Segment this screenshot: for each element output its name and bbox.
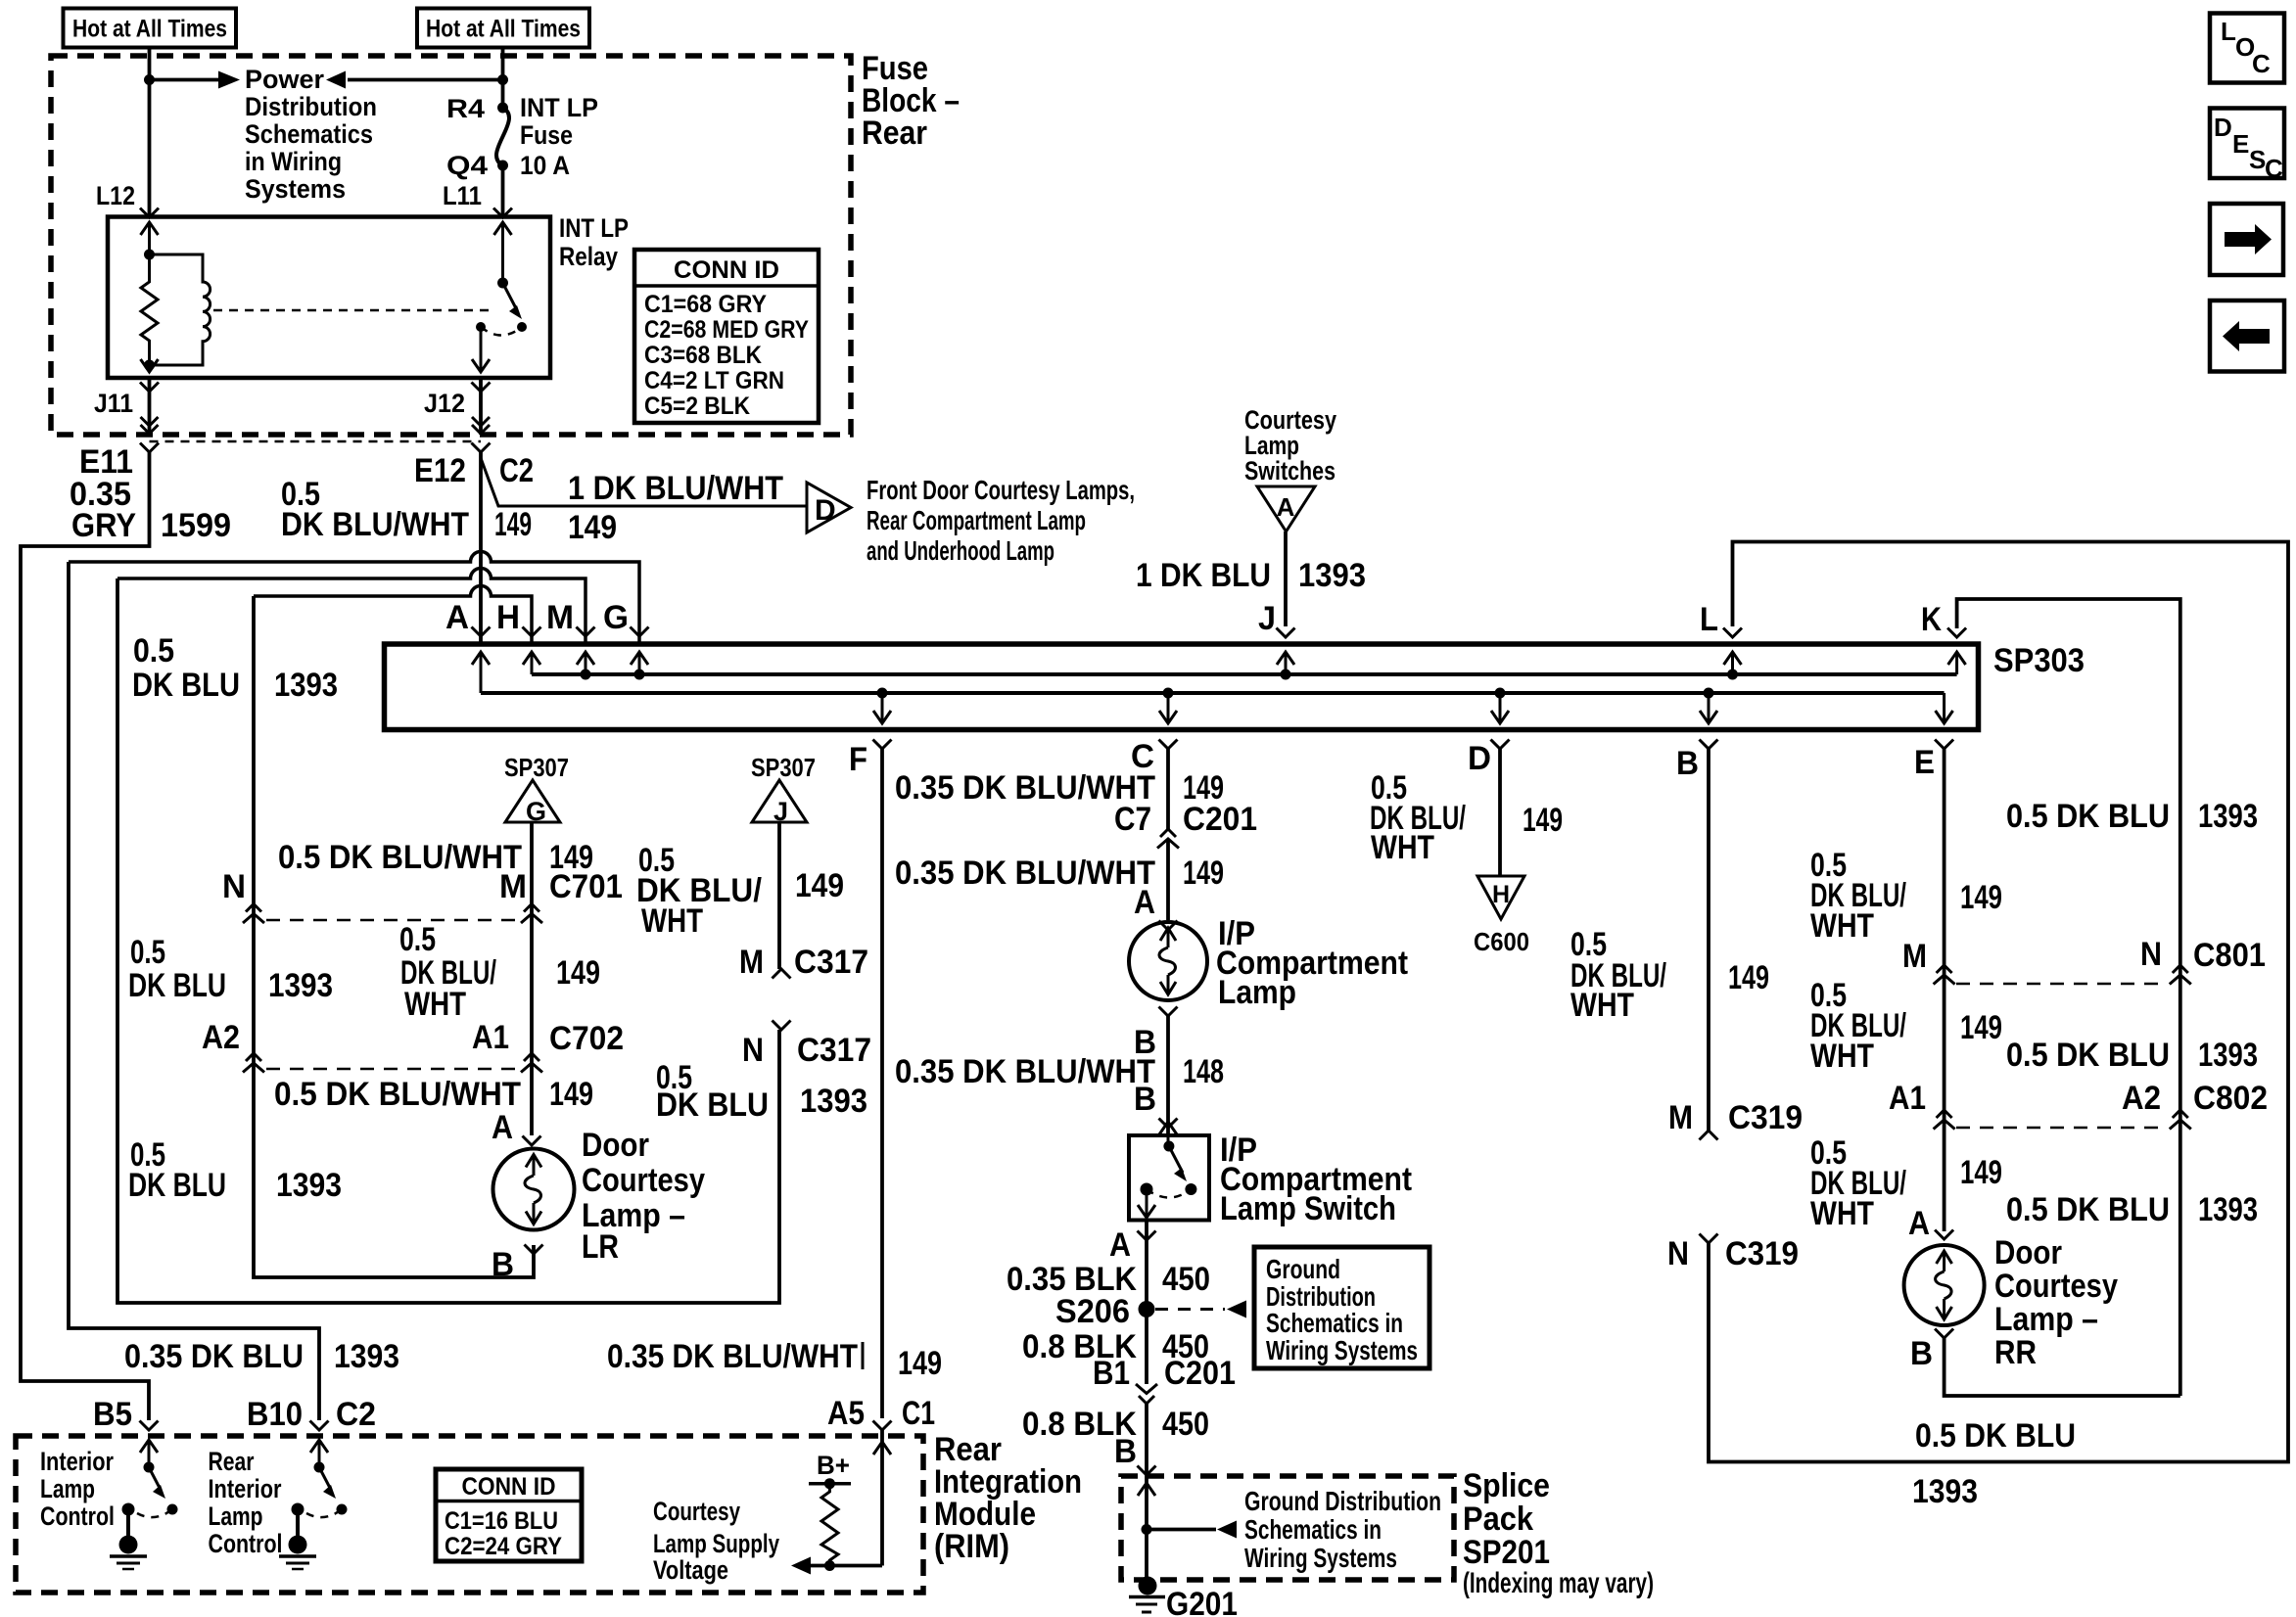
wire branch to splice H terminal bbox=[254, 586, 532, 645]
C702 mate dashed line bbox=[266, 1068, 519, 1071]
interior lamp control entry arrow bbox=[140, 1440, 158, 1453]
arrow to power distribution note bbox=[150, 71, 241, 89]
C701 mate dashed line bbox=[266, 919, 519, 922]
wire label 0.35 DK BLU/WHT 148 bbox=[895, 1053, 1224, 1090]
svg-text:A5: A5 bbox=[827, 1395, 865, 1432]
nav box DESC bbox=[2210, 109, 2284, 184]
splice terminal J arrow bbox=[1277, 652, 1294, 680]
svg-text:Rear Compartment Lamp: Rear Compartment Lamp bbox=[867, 505, 1086, 535]
wire label 0.8 BLK 450 bbox=[1022, 1328, 1209, 1365]
svg-text:149: 149 bbox=[556, 954, 600, 992]
dashed connector mate line E11-E12 bbox=[150, 440, 482, 443]
relay switch input arrow (from L11) bbox=[494, 222, 512, 235]
svg-text:1393: 1393 bbox=[1298, 557, 1366, 594]
connector splice pack B bbox=[1138, 1466, 1156, 1476]
svg-text:Rear: Rear bbox=[209, 1447, 255, 1476]
svg-text:L11: L11 bbox=[443, 181, 482, 210]
nav box LOC bbox=[2210, 14, 2284, 83]
svg-text:H: H bbox=[1492, 881, 1510, 908]
svg-text:Pack: Pack bbox=[1463, 1501, 1533, 1538]
svg-text:N: N bbox=[2140, 936, 2162, 973]
svg-text:E: E bbox=[2232, 129, 2249, 159]
connector J11 bbox=[140, 383, 159, 435]
svg-text:C1=68 GRY: C1=68 GRY bbox=[644, 291, 767, 318]
svg-text:149: 149 bbox=[1183, 855, 1224, 892]
wire A triangle to splice J bbox=[1284, 531, 1288, 626]
svg-text:Schematics in: Schematics in bbox=[1266, 1308, 1403, 1338]
wire label 0.5 DK BLU/ WHT 149 (E lower) bbox=[1810, 1134, 2002, 1232]
svg-text:S206: S206 bbox=[1055, 1293, 1130, 1330]
svg-text:0.5: 0.5 bbox=[133, 632, 174, 670]
connector C319 cavity N (start) bbox=[1667, 1234, 1718, 1273]
svg-text:(RIM): (RIM) bbox=[934, 1528, 1009, 1565]
relay box INT LP Relay bbox=[108, 217, 550, 379]
wire SP307 J to C317 M bbox=[777, 822, 781, 969]
svg-text:149: 149 bbox=[795, 867, 844, 904]
wire label 0.35 DK BLU/WHT 149 (A5) bbox=[607, 1338, 942, 1382]
splice exit B connector bbox=[1700, 740, 1718, 750]
svg-text:C1=16 BLU: C1=16 BLU bbox=[445, 1507, 558, 1535]
splice exit D arrow bbox=[1491, 688, 1509, 724]
svg-text:C2=24 GRY: C2=24 GRY bbox=[445, 1533, 562, 1560]
wire label 0.5 DK BLU/WHT 149 bbox=[281, 476, 532, 543]
svg-text:A2: A2 bbox=[202, 1019, 240, 1056]
svg-text:C2=68 MED GRY: C2=68 MED GRY bbox=[644, 316, 809, 344]
svg-text:J: J bbox=[773, 797, 788, 826]
svg-text:Relay: Relay bbox=[559, 242, 618, 271]
svg-text:0.35 DK BLU/WHT: 0.35 DK BLU/WHT bbox=[895, 1053, 1155, 1090]
label Rear Integration Module (RIM) bbox=[934, 1431, 1082, 1565]
rear interior lamp control dashed arc bbox=[306, 1509, 342, 1517]
wire label 0.5 DK BLU 1393 (lamp return) bbox=[128, 1136, 342, 1204]
svg-text:Hot at All Times: Hot at All Times bbox=[72, 16, 227, 43]
svg-text:C4=2 LT GRN: C4=2 LT GRN bbox=[644, 367, 784, 394]
svg-text:SP303: SP303 bbox=[1993, 642, 2085, 679]
junction node resistor bottom bbox=[824, 1560, 835, 1571]
wire label 0.5 DK BLU 1393 (K upper) bbox=[2006, 798, 2258, 835]
rear interior lamp control contacts bbox=[337, 1504, 348, 1515]
svg-text:C: C bbox=[2265, 154, 2283, 183]
svg-text:C319: C319 bbox=[1725, 1235, 1799, 1272]
svg-text:Courtesy: Courtesy bbox=[1994, 1268, 2118, 1305]
svg-text:N: N bbox=[222, 868, 246, 905]
label Rear Interior Lamp Control bbox=[209, 1447, 283, 1558]
wire branch left leg down to C317 loop bbox=[117, 578, 779, 1303]
svg-text:D: D bbox=[2214, 113, 2232, 142]
svg-text:Control: Control bbox=[209, 1529, 283, 1558]
svg-text:and Underhood Lamp: and Underhood Lamp bbox=[867, 535, 1054, 566]
svg-text:(Indexing may vary): (Indexing may vary) bbox=[1463, 1567, 1654, 1599]
lamp E3 Door Courtesy Lamp - RR bbox=[1904, 1245, 1985, 1325]
svg-text:A: A bbox=[1109, 1226, 1131, 1264]
connector E12 bbox=[472, 443, 491, 453]
wire from left Hot at All Times to relay L12 bbox=[148, 48, 152, 218]
svg-text:INT LP: INT LP bbox=[559, 213, 629, 243]
wire C2 branch to D (1 DK BLU/WHT) bbox=[481, 458, 807, 506]
wire fuse to relay L11 bbox=[501, 165, 505, 217]
junction node on L12 feed bbox=[144, 74, 155, 85]
svg-text:C201: C201 bbox=[1183, 801, 1257, 838]
svg-text:N: N bbox=[742, 1032, 764, 1069]
label Door Courtesy Lamp - RR bbox=[1994, 1234, 2118, 1371]
switch throw dashed arc bbox=[1147, 1189, 1191, 1198]
svg-text:L: L bbox=[1700, 601, 1718, 638]
svg-text:149: 149 bbox=[1960, 1154, 2002, 1191]
connector switch pin B bbox=[1159, 1119, 1178, 1129]
RIM A5 entry arrow bbox=[873, 1442, 891, 1455]
junction node on L11 feed bbox=[497, 74, 508, 85]
svg-text:CONN ID: CONN ID bbox=[674, 256, 779, 284]
svg-text:149: 149 bbox=[1728, 959, 1769, 996]
svg-text:B10: B10 bbox=[247, 1396, 303, 1433]
svg-text:148: 148 bbox=[1183, 1053, 1224, 1090]
relay resistor (parallel) bbox=[141, 254, 158, 365]
splice exit F connector bbox=[873, 740, 892, 750]
off-page connector SP307 J triangle bbox=[751, 753, 816, 826]
connector C319 cavity M (end) bbox=[1668, 1099, 1718, 1140]
splice exit C arrow bbox=[1159, 688, 1177, 724]
svg-text:C201: C201 bbox=[1164, 1355, 1236, 1392]
note Ground Distribution Schematics in Wiring Systems (SP201) bbox=[1244, 1486, 1441, 1573]
interior lamp control switch arm bbox=[149, 1467, 165, 1499]
connector C701 cavity N bbox=[222, 868, 264, 923]
svg-text:WHT: WHT bbox=[1810, 1038, 1874, 1075]
C801 mate dashed line bbox=[1956, 983, 2168, 986]
fuse block rear dashed boundary bbox=[51, 56, 851, 435]
svg-text:F: F bbox=[849, 741, 867, 778]
svg-text:DK BLU: DK BLU bbox=[128, 1167, 226, 1204]
splice pack SP201 entry arrow bbox=[1138, 1483, 1155, 1496]
svg-text:D: D bbox=[815, 494, 836, 527]
svg-text:Lamp –: Lamp – bbox=[1994, 1301, 2098, 1338]
label INT LP Relay bbox=[559, 213, 629, 271]
svg-text:M: M bbox=[739, 944, 764, 981]
connector C317 cavity N (start) bbox=[742, 1021, 791, 1070]
svg-text:DK BLU/WHT: DK BLU/WHT bbox=[281, 506, 469, 543]
splice terminal M arrow bbox=[577, 652, 594, 680]
svg-text:1599: 1599 bbox=[161, 507, 231, 544]
connector C801 cavity M bbox=[1902, 938, 1955, 985]
splice S206 bbox=[1055, 1293, 1155, 1330]
svg-text:1393: 1393 bbox=[800, 1083, 867, 1120]
svg-text:C600: C600 bbox=[1474, 927, 1529, 956]
splice terminal G arrow bbox=[631, 652, 648, 680]
svg-text:0.35 DK BLU/WHT: 0.35 DK BLU/WHT bbox=[895, 855, 1155, 892]
splice terminal M connector bbox=[577, 627, 595, 637]
wire C702 A1 to lamp LR bbox=[530, 1067, 534, 1135]
svg-text:1393: 1393 bbox=[1912, 1473, 1978, 1510]
svg-text:0.35 DK BLU/WHT: 0.35 DK BLU/WHT bbox=[607, 1338, 858, 1375]
rear interior lamp control lever and ground bbox=[279, 1503, 316, 1570]
svg-text:Ground: Ground bbox=[1266, 1254, 1340, 1284]
svg-text:M: M bbox=[1668, 1099, 1693, 1136]
resistor (courtesy lamp supply) bbox=[821, 1484, 838, 1566]
svg-text:SP307: SP307 bbox=[751, 753, 816, 782]
splice terminal K connector bbox=[1947, 628, 1966, 638]
svg-text:M: M bbox=[1902, 938, 1927, 975]
svg-text:WHT: WHT bbox=[1810, 907, 1874, 945]
wire E11 to RIM B5 bbox=[21, 452, 150, 1420]
connector C201 cavity C7 bbox=[1114, 801, 1179, 849]
reference arrow (G201 ground distribution) bbox=[1147, 1521, 1237, 1539]
svg-text:149: 149 bbox=[568, 509, 617, 546]
svg-text:INT LP: INT LP bbox=[520, 93, 598, 122]
splice terminal H connector bbox=[523, 627, 541, 637]
connector C317 cavity M (end) bbox=[739, 944, 791, 981]
relay actuation dashed link bbox=[213, 309, 490, 312]
switch pivot bbox=[1163, 1141, 1174, 1152]
wire C702 A2 down to lamp return loop bbox=[254, 1067, 534, 1277]
wire label 0.5 DK BLU/WHT 149 (C701 feed) bbox=[278, 839, 593, 876]
svg-text:1393: 1393 bbox=[334, 1338, 399, 1375]
svg-text:1393: 1393 bbox=[2198, 798, 2258, 835]
RIM dashed box bbox=[16, 1436, 923, 1593]
wire J11 bbox=[148, 378, 152, 435]
svg-text:R4: R4 bbox=[446, 94, 485, 123]
splice exit F arrow bbox=[873, 688, 891, 724]
svg-text:Wiring Systems: Wiring Systems bbox=[1266, 1335, 1418, 1365]
junction node to reference arrow bbox=[1142, 1524, 1152, 1535]
svg-text:0.5 DK BLU: 0.5 DK BLU bbox=[2006, 1191, 2170, 1228]
svg-text:Schematics in: Schematics in bbox=[1244, 1514, 1382, 1545]
svg-text:B: B bbox=[1134, 1081, 1156, 1118]
svg-text:A: A bbox=[445, 599, 469, 636]
svg-text:C319: C319 bbox=[1728, 1099, 1803, 1136]
svg-text:0.5 DK BLU: 0.5 DK BLU bbox=[2006, 798, 2170, 835]
C802 mate dashed line bbox=[1956, 1127, 2168, 1130]
off-page connector D triangle bbox=[807, 483, 851, 532]
off-page connector SP307 G triangle bbox=[504, 753, 569, 826]
svg-text:K: K bbox=[1921, 601, 1942, 638]
connector C701 cavity M bbox=[499, 868, 542, 923]
svg-text:1393: 1393 bbox=[2198, 1037, 2258, 1074]
lamp E1 I/P Compartment Lamp bbox=[1129, 922, 1207, 1000]
label INT LP Fuse 10 A bbox=[520, 93, 598, 180]
wire label 0.5 DK BLU/ WHT 149 bbox=[1570, 926, 1769, 1024]
wire splice E to C801 M bbox=[1943, 749, 1946, 1231]
svg-text:Power: Power bbox=[245, 65, 324, 94]
wire lamp B to switch B bbox=[1166, 1016, 1170, 1135]
wire label 0.5 DK BLU 1393 (K mid) bbox=[2006, 1037, 2258, 1074]
svg-text:0.5: 0.5 bbox=[130, 934, 165, 971]
svg-text:0.35 DK BLU: 0.35 DK BLU bbox=[124, 1338, 304, 1375]
svg-text:C2: C2 bbox=[499, 452, 534, 489]
connector lamp RR pin A bbox=[1935, 1230, 1953, 1240]
svg-text:J12: J12 bbox=[424, 389, 465, 418]
svg-text:Voltage: Voltage bbox=[653, 1555, 728, 1585]
wire label 0.5 DK BLU/WHT 149 (feed) bbox=[399, 921, 600, 1023]
splice exit E connector bbox=[1935, 740, 1953, 750]
svg-text:Distribution: Distribution bbox=[245, 92, 377, 121]
switch output arrow bbox=[1138, 1205, 1155, 1218]
svg-text:0.5: 0.5 bbox=[399, 921, 436, 958]
wire lamp RR B return to K bbox=[1945, 1338, 2180, 1396]
wire label 0.5 DK BLU 1393 (C317 to RIM) bbox=[656, 1059, 867, 1124]
label Interior Lamp Control bbox=[40, 1447, 115, 1531]
arrow to power distribution note (left pointing) bbox=[326, 71, 503, 89]
svg-text:C702: C702 bbox=[549, 1020, 624, 1057]
svg-text:L: L bbox=[2221, 17, 2236, 46]
wire label 0.5 DK BLU/ WHT 149 bbox=[1370, 769, 1563, 866]
lamp E2 Door Courtesy Lamp - LR bbox=[493, 1149, 575, 1230]
relay switch pivot bbox=[497, 278, 508, 289]
wire label 0.5 DK BLU/WHT 149 (lamp feed) bbox=[274, 1076, 593, 1113]
ground G201 bbox=[1129, 1577, 1165, 1613]
svg-text:B5: B5 bbox=[93, 1396, 132, 1433]
svg-text:Lamp Supply: Lamp Supply bbox=[653, 1529, 779, 1558]
svg-text:E: E bbox=[1914, 744, 1935, 781]
junction node coil top bbox=[144, 250, 155, 260]
off-page connector C600 H triangle bbox=[1477, 876, 1524, 919]
splice terminal A connector bbox=[472, 627, 491, 637]
svg-text:H: H bbox=[496, 599, 520, 636]
svg-text:Switches: Switches bbox=[1244, 456, 1335, 485]
splice exit B arrow bbox=[1700, 688, 1717, 724]
svg-text:1 DK BLU: 1 DK BLU bbox=[1136, 557, 1271, 594]
interior lamp control dashed arc bbox=[137, 1509, 172, 1517]
splice terminal L arrow bbox=[1724, 652, 1742, 680]
connector switch pin A bbox=[1138, 1231, 1156, 1241]
relay coil winding bbox=[150, 254, 211, 365]
wire C701 N to C702 A2 bbox=[252, 596, 256, 1067]
rear interior lamp control switch pivot bbox=[314, 1462, 325, 1473]
note box Ground Distribution Schematics in Wiring Systems bbox=[1254, 1247, 1429, 1368]
label Splice Pack SP201 (Indexing may vary) bbox=[1463, 1467, 1654, 1599]
note: Front Door Courtesy Lamps, Rear Compartment Lamp and Underhood Lamp bbox=[867, 475, 1135, 566]
svg-text:C: C bbox=[2252, 49, 2271, 78]
svg-text:M: M bbox=[546, 599, 574, 636]
relay switch contacts bbox=[476, 322, 527, 332]
svg-text:G201: G201 bbox=[1166, 1586, 1238, 1617]
wire into splice pack SP201 bbox=[1145, 1476, 1148, 1586]
connector RIM A5 bbox=[873, 1421, 892, 1431]
note: Power Distribution Schematics in Wiring Systems bbox=[245, 65, 377, 204]
svg-text:1393: 1393 bbox=[274, 667, 338, 704]
interior lamp control switch pivot bbox=[144, 1462, 155, 1473]
svg-text:C3=68 BLK: C3=68 BLK bbox=[644, 342, 762, 369]
interior lamp control lever and ground bbox=[110, 1503, 147, 1570]
svg-text:GRY: GRY bbox=[71, 507, 136, 544]
wire K to C801 N bbox=[1957, 599, 2180, 1396]
svg-text:10 A: 10 A bbox=[520, 151, 570, 180]
svg-text:Splice: Splice bbox=[1463, 1467, 1550, 1504]
splice internal conductor (lower) bbox=[481, 691, 1945, 695]
svg-text:B: B bbox=[1910, 1335, 1933, 1372]
svg-text:A1: A1 bbox=[472, 1019, 509, 1056]
svg-text:D: D bbox=[1468, 740, 1491, 777]
svg-text:DK BLU: DK BLU bbox=[128, 967, 226, 1004]
connector lamp RR pin B bbox=[1935, 1329, 1953, 1339]
connector C802 cavity A2 bbox=[2122, 1080, 2191, 1130]
wire branch to splice G terminal bbox=[69, 552, 639, 645]
connector C802 cavity A1 bbox=[1889, 1080, 1955, 1130]
svg-text:C1: C1 bbox=[902, 1395, 935, 1432]
svg-text:Q4: Q4 bbox=[446, 151, 488, 180]
svg-text:Control: Control bbox=[40, 1501, 115, 1531]
svg-text:0.5 DK BLU: 0.5 DK BLU bbox=[2006, 1037, 2170, 1074]
svg-text:S: S bbox=[2249, 145, 2266, 174]
svg-text:WHT: WHT bbox=[1371, 829, 1434, 866]
svg-text:B: B bbox=[1114, 1433, 1137, 1470]
svg-text:WHT: WHT bbox=[404, 986, 466, 1023]
wire C201 B1 to RIM... (continues) bbox=[1145, 1403, 1148, 1476]
svg-text:1 DK BLU/WHT: 1 DK BLU/WHT bbox=[568, 470, 783, 507]
wire label 0.5 DK BLU/ WHT 149 (E upper) bbox=[1810, 847, 2002, 945]
svg-text:0.5 DK BLU: 0.5 DK BLU bbox=[1915, 1417, 2076, 1455]
wire C201 C7 to lamp A bbox=[1166, 839, 1170, 920]
wire label 0.35 DK BLU/WHT 149 bbox=[895, 855, 1224, 892]
relay switch throw dashed arc bbox=[481, 327, 522, 336]
splice exit E arrow bbox=[1936, 711, 1953, 723]
svg-text:Door: Door bbox=[1994, 1234, 2062, 1271]
wire splice B to C319 M bbox=[1707, 749, 1710, 1131]
svg-text:G: G bbox=[526, 797, 546, 826]
svg-text:WHT: WHT bbox=[1810, 1195, 1874, 1232]
connector J12 bbox=[472, 383, 491, 435]
switch contacts bbox=[1141, 1183, 1197, 1196]
svg-text:N: N bbox=[1667, 1235, 1689, 1272]
svg-text:149: 149 bbox=[494, 506, 532, 543]
wire branch left leg down to RIM B10 bbox=[69, 562, 319, 1420]
wire label 0.35 BLK 450 bbox=[1007, 1261, 1210, 1298]
wire J12 bbox=[479, 378, 483, 435]
switch movable arm bbox=[1169, 1146, 1187, 1181]
relay switch output arrow (to J12) bbox=[472, 359, 490, 372]
svg-text:Interior: Interior bbox=[209, 1474, 282, 1503]
svg-text:C2: C2 bbox=[336, 1396, 376, 1433]
connector L12 bbox=[140, 208, 159, 218]
splice pack SP201 dashed box bbox=[1121, 1476, 1454, 1580]
svg-text:WHT: WHT bbox=[641, 902, 703, 940]
interior lamp control contacts bbox=[167, 1504, 178, 1515]
svg-text:A: A bbox=[492, 1109, 513, 1146]
svg-text:M: M bbox=[499, 868, 527, 905]
wire label 0.35 DK BLU 1393 (B10) bbox=[124, 1338, 399, 1375]
svg-text:RR: RR bbox=[1994, 1334, 2037, 1371]
wire label 0.5 DK BLU/ WHT 149 (C317 feed) bbox=[636, 842, 844, 940]
splice terminal L connector bbox=[1723, 628, 1742, 638]
svg-text:Courtesy: Courtesy bbox=[653, 1497, 740, 1526]
switch S1 I/P Compartment Lamp Switch box bbox=[1129, 1135, 1209, 1221]
svg-text:A1: A1 bbox=[1889, 1080, 1926, 1117]
splice exit C connector bbox=[1159, 740, 1178, 750]
rear interior lamp control switch arm bbox=[319, 1467, 336, 1499]
label Door Courtesy Lamp - LR bbox=[582, 1127, 705, 1266]
connector C801 cavity N bbox=[2140, 936, 2191, 985]
svg-text:DK BLU: DK BLU bbox=[656, 1086, 769, 1124]
svg-text:149: 149 bbox=[1960, 1009, 2002, 1046]
svg-text:WHT: WHT bbox=[1570, 987, 1634, 1024]
connector lamp LR pin B bbox=[525, 1245, 543, 1255]
svg-text:C802: C802 bbox=[2193, 1080, 2268, 1117]
connector RIM B5 bbox=[140, 1421, 159, 1431]
svg-text:Ground Distribution: Ground Distribution bbox=[1244, 1486, 1441, 1516]
svg-text:LR: LR bbox=[582, 1228, 619, 1266]
splice pack SP303 body bbox=[385, 644, 1979, 730]
connector lamp LR pin A bbox=[523, 1136, 541, 1146]
wire label 0.35 DK BLU/WHT 149 bbox=[895, 769, 1224, 807]
svg-text:Front Door Courtesy Lamps,: Front Door Courtesy Lamps, bbox=[867, 475, 1135, 505]
B+ supply bbox=[809, 1451, 851, 1489]
svg-text:J11: J11 bbox=[94, 389, 133, 418]
svg-text:J: J bbox=[1258, 600, 1276, 637]
wire branch to splice M terminal bbox=[117, 569, 586, 645]
svg-text:1393: 1393 bbox=[268, 967, 333, 1004]
label Fuse Block - Rear bbox=[862, 50, 960, 152]
svg-text:G: G bbox=[603, 599, 629, 636]
svg-text:SP201: SP201 bbox=[1463, 1534, 1550, 1571]
label Courtesy Lamp Supply Voltage bbox=[653, 1497, 779, 1585]
